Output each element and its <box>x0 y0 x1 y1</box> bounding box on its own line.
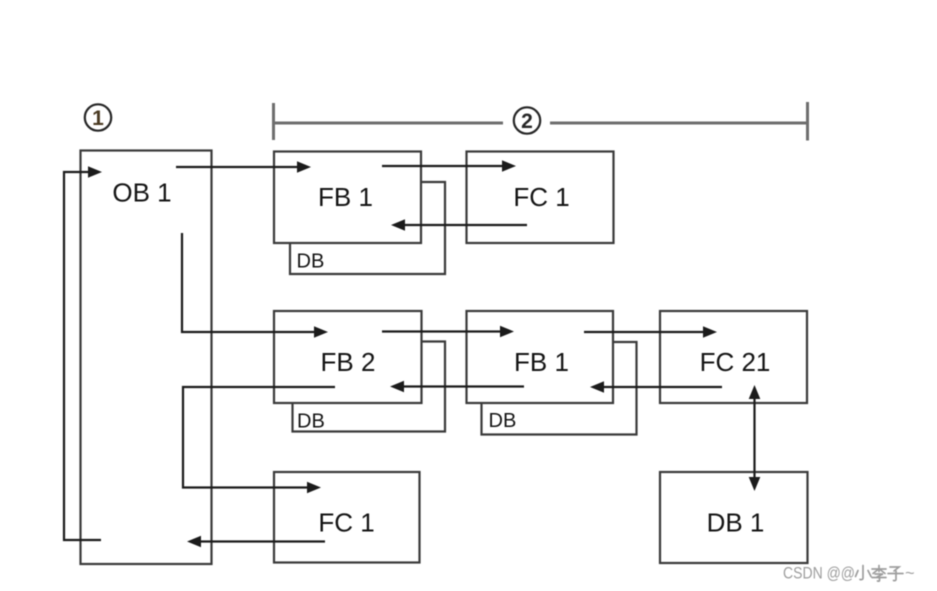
svg-text:FC 1: FC 1 <box>513 182 569 212</box>
svg-text:DB 1: DB 1 <box>707 508 765 538</box>
svg-text:DB: DB <box>297 251 325 273</box>
svg-text:FC 21: FC 21 <box>700 347 771 377</box>
svg-text:DB: DB <box>297 411 325 433</box>
svg-text:FB 1: FB 1 <box>514 347 569 377</box>
svg-text:1: 1 <box>92 107 104 130</box>
svg-text:FC 1: FC 1 <box>318 508 374 538</box>
svg-text:2: 2 <box>521 110 533 133</box>
svg-text:~: ~ <box>905 565 915 583</box>
svg-text:FB 2: FB 2 <box>321 347 376 377</box>
svg-text:OB 1: OB 1 <box>112 178 171 208</box>
svg-text:CSDN @@: CSDN @@ <box>783 565 855 583</box>
svg-text:FB 1: FB 1 <box>318 182 373 212</box>
svg-text:DB: DB <box>489 410 517 432</box>
